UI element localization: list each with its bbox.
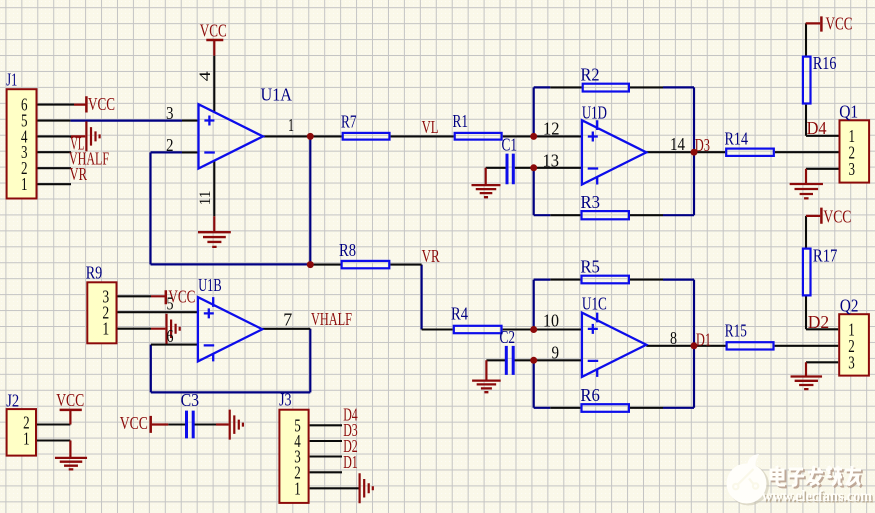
svg-text:14: 14 (670, 134, 685, 154)
svg-text:D1: D1 (696, 330, 711, 350)
svg-text:U1C: U1C (582, 294, 607, 314)
svg-text:VCC: VCC (56, 390, 84, 410)
svg-text:6: 6 (167, 326, 174, 346)
svg-text:Q2: Q2 (840, 296, 859, 316)
svg-text:4: 4 (197, 71, 214, 81)
svg-text:D3: D3 (695, 135, 710, 155)
svg-text:3: 3 (848, 352, 855, 372)
svg-text:VCC: VCC (823, 207, 851, 227)
svg-text:10: 10 (543, 311, 559, 331)
svg-text:R1: R1 (453, 111, 469, 131)
svg-text:R7: R7 (341, 112, 357, 132)
svg-text:J3: J3 (279, 390, 292, 410)
svg-text:3: 3 (849, 159, 856, 179)
svg-text:R3: R3 (581, 192, 601, 212)
svg-text:1: 1 (23, 429, 30, 449)
svg-text:D4: D4 (807, 118, 827, 138)
svg-text:J1: J1 (6, 70, 17, 90)
svg-text:R5: R5 (580, 257, 600, 277)
svg-text:R9: R9 (86, 262, 103, 282)
svg-text:VCC: VCC (120, 413, 148, 433)
svg-text:R16: R16 (813, 53, 837, 73)
svg-text:C3: C3 (181, 390, 200, 410)
svg-text:8: 8 (670, 328, 677, 348)
svg-text:VCC: VCC (200, 21, 227, 41)
svg-text:U1B: U1B (198, 275, 222, 295)
svg-text:R15: R15 (725, 320, 747, 340)
svg-text:3: 3 (166, 103, 174, 123)
svg-text:C1: C1 (502, 135, 518, 155)
svg-text:R14: R14 (725, 128, 749, 148)
svg-text:Q1: Q1 (839, 102, 858, 122)
svg-text:11: 11 (197, 190, 214, 205)
svg-text:9: 9 (552, 343, 560, 363)
svg-text:VHALF: VHALF (311, 309, 352, 329)
svg-text:VCC: VCC (826, 13, 853, 33)
svg-text:R4: R4 (451, 304, 468, 324)
svg-text:R2: R2 (581, 65, 600, 85)
svg-text:R17: R17 (813, 245, 838, 265)
svg-text:VR: VR (70, 164, 88, 184)
svg-text:1: 1 (294, 478, 301, 498)
svg-text:D2: D2 (808, 312, 830, 332)
svg-text:1: 1 (288, 115, 294, 135)
svg-text:2: 2 (166, 135, 174, 155)
svg-text:7: 7 (283, 309, 292, 329)
svg-text:1: 1 (21, 174, 28, 194)
svg-text:J2: J2 (6, 391, 19, 411)
svg-text:R8: R8 (339, 240, 356, 260)
svg-text:13: 13 (543, 151, 560, 171)
svg-text:VR: VR (422, 246, 440, 266)
svg-text:C2: C2 (500, 327, 516, 347)
svg-text:U1D: U1D (582, 103, 607, 123)
svg-text:R6: R6 (580, 385, 600, 405)
svg-text:12: 12 (543, 119, 560, 139)
svg-text:VCC: VCC (88, 94, 115, 114)
svg-text:1: 1 (102, 319, 109, 339)
svg-text:www.elecfans.com: www.elecfans.com (762, 488, 873, 505)
svg-text:VL: VL (422, 117, 439, 137)
svg-text:D1: D1 (343, 452, 358, 472)
svg-text:5: 5 (167, 294, 174, 314)
svg-text:U1A: U1A (261, 84, 293, 104)
